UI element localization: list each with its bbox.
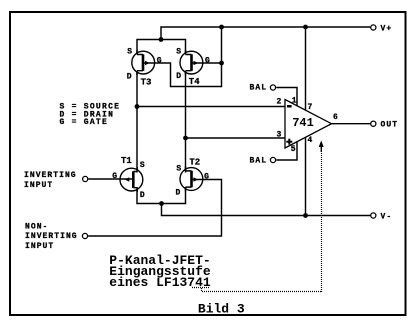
pin 5 wire (BAL bottom) [276,142,297,160]
terminal BAL2 [270,157,275,162]
terminal V+ [371,25,376,30]
svg-text:2: 2 [277,97,282,106]
svg-text:INPUT: INPUT [25,242,54,251]
wire: non-inverting input to T2 gate [88,180,221,237]
svg-text:BAL: BAL [250,157,268,166]
node: pin2 junction [135,104,140,109]
svg-text:V+: V+ [381,25,393,34]
node: rail pin7 tap [303,25,308,30]
wire: rail to pin7 [305,27,307,110]
node: rail-source junction [159,37,164,42]
wire: T4 drain to T2 source [185,71,187,173]
svg-text:INVERTING: INVERTING [24,171,77,180]
svg-text:G: G [204,173,209,182]
dotted arrow head at pin4 [320,146,322,152]
node: pin3 junction [183,136,188,141]
plus sign [286,141,292,143]
svg-text:BAL: BAL [250,83,268,92]
transistor T3 [132,50,155,75]
transistor T4 [180,50,203,75]
svg-text:D: D [176,189,181,198]
node: rail gate tap [219,25,224,30]
wire: inverting input to T1 gate [88,178,133,180]
svg-text:S: S [127,47,132,56]
wire: V+ top rail [161,27,370,40]
svg-text:S: S [176,165,181,174]
svg-text:5: 5 [291,145,296,154]
wire: pin2 line [137,106,285,108]
svg-text:6: 6 [333,113,338,122]
svg-text:NON-: NON- [25,223,48,232]
node: T4 gate junction [219,61,224,66]
svg-text:1: 1 [292,97,297,106]
svg-text:D: D [140,191,145,200]
svg-text:T4: T4 [189,77,200,87]
wire: T3 drain to T1 source [136,71,138,173]
wire: pin3 line [186,137,286,139]
terminal BAL1 [270,85,275,90]
svg-text:V-: V- [381,213,393,222]
svg-text:T2: T2 [189,157,200,167]
svg-text:OUT: OUT [381,121,399,130]
svg-text:S: S [140,161,145,170]
wire: rail to gates [221,27,223,63]
svg-text:G: G [112,172,117,181]
svg-text:eines LF13741: eines LF13741 [109,275,211,290]
minus sign [287,105,292,108]
svg-text:D: D [127,72,132,81]
node: drain junction [159,201,164,206]
svg-text:D: D [176,72,181,81]
node: pin4 V- junction [303,213,308,218]
svg-text:7: 7 [308,103,313,112]
wire: pin4 to V- rail [305,138,307,216]
terminal inverting input [83,176,88,181]
svg-text:G: G [157,57,162,66]
terminal V- [371,213,376,218]
svg-text:G: G [205,57,210,66]
transistor T2 [180,166,203,191]
svg-text:4: 4 [308,136,313,145]
pin 1 wire (BAL top) [276,88,297,107]
svg-text:S: S [176,47,181,56]
svg-text:T3: T3 [141,77,152,87]
wire: pin 6 output [332,123,371,125]
svg-text:3: 3 [277,131,282,140]
svg-text:T1: T1 [121,156,132,166]
op-amp U1 741 [285,100,332,149]
svg-text:741: 741 [292,116,314,130]
dotted feedback path [192,152,322,292]
transistor T1 [120,167,143,192]
svg-text:INVERTING: INVERTING [25,232,78,241]
terminal non-inverting input [82,233,87,238]
wire: T1/T2 drain join [137,187,186,204]
wire: drain junction to V- rail [162,204,371,216]
wire: T3 gate loop to T4 gate [143,63,222,87]
svg-text:Bild 3: Bild 3 [198,301,245,316]
svg-text:INPUT: INPUT [24,181,53,190]
svg-text:G = GATE: G = GATE [60,118,109,127]
terminal OUT [371,121,376,126]
wire: T3/T4 source join [137,40,186,54]
